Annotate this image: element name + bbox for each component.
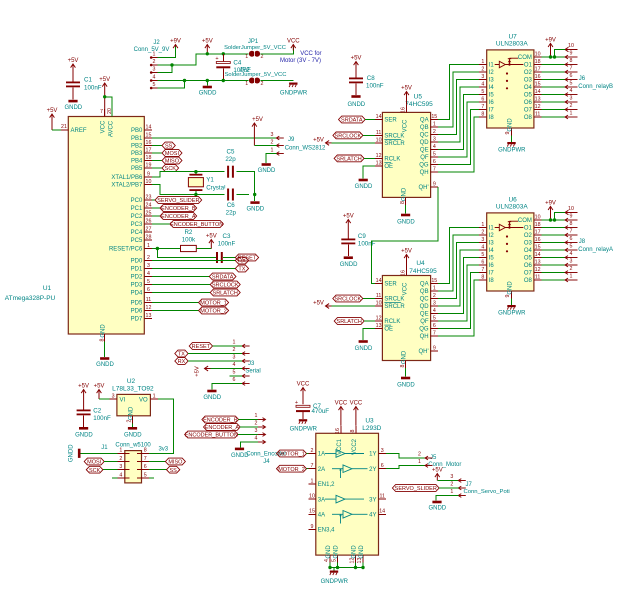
svg-text:7: 7 (311, 463, 314, 469)
svg-text:2: 2 (481, 229, 484, 235)
capacitor C2 (77, 410, 91, 416)
svg-text:PC3: PC3 (131, 222, 143, 228)
svg-text:SRCLOCK: SRCLOCK (212, 283, 239, 289)
wire COM rail (541, 219, 565, 221)
svg-text:+5V: +5V (313, 137, 324, 143)
svg-text:O7: O7 (524, 108, 533, 114)
net label ENCODER_BUTTON (J4) (185, 431, 238, 438)
svg-text:3: 3 (481, 237, 484, 243)
ground GNDD (C1) (72, 87, 74, 99)
J1 pin 3 (117, 469, 129, 471)
svg-text:9: 9 (570, 50, 573, 56)
svg-text:GNDD: GNDD (397, 382, 415, 388)
svg-text:100nF: 100nF (366, 83, 384, 90)
U7 pin 2 I2 (479, 71, 487, 73)
power +5V (C1) (71, 64, 76, 82)
svg-text:PC2: PC2 (131, 214, 143, 220)
svg-text:OE: OE (384, 327, 393, 333)
svg-text:SolderJumper_5V_VCC: SolderJumper_5V_VCC (224, 45, 286, 51)
svg-text:XTAL2/PB7: XTAL2/PB7 (111, 183, 143, 189)
wire U3 ground bus (330, 563, 363, 568)
capacitor C9 (341, 239, 355, 245)
svg-text:QH': QH' (418, 185, 428, 191)
svg-text:SRCLOCK: SRCLOCK (334, 297, 361, 303)
svg-text:GNDD: GNDD (397, 219, 415, 225)
svg-text:74HC595: 74HC595 (409, 268, 437, 275)
U5 pin 7 QH (431, 171, 439, 173)
IC U6 ULN2803A (487, 213, 534, 291)
junction (328, 566, 331, 569)
J6 pin 8 (565, 63, 578, 67)
wire SRCLR U4 (332, 305, 375, 307)
svg-text:8: 8 (481, 274, 484, 280)
wire MOTOR_2 U3 (306, 468, 308, 470)
svg-text:SRCLK: SRCLK (384, 134, 404, 140)
J8 pin 2 (565, 271, 578, 275)
svg-text:COM: COM (518, 218, 532, 224)
svg-text:I8: I8 (489, 115, 495, 121)
U4 pin 1 QB (431, 290, 439, 292)
wire XTAL2 net (152, 185, 249, 195)
junction (553, 218, 556, 221)
U3 pin 13 GND (362, 555, 364, 563)
wire PC1 ENCODER_B (152, 207, 160, 209)
U7 pin 14 O5 (534, 94, 542, 96)
wire MISO (152, 160, 162, 162)
U5 pin 14 SER (375, 119, 383, 121)
J8 pin 6 (565, 241, 578, 245)
power +5V (U1 VCC/AVCC) (102, 83, 107, 117)
svg-text:R2: R2 (184, 229, 192, 236)
wire SRLATCH (364, 157, 375, 159)
svg-text:6: 6 (570, 236, 573, 242)
svg-text:PD2: PD2 (131, 275, 143, 281)
power +5V (U4 SRCLR) (326, 304, 332, 309)
net label ENCODER_B (U1) (160, 205, 197, 212)
svg-text:22p: 22p (225, 156, 236, 163)
U1 pin 16 PB2 (144, 145, 152, 147)
svg-text:2: 2 (433, 293, 436, 299)
power +5V (C8) (354, 62, 359, 78)
svg-text:2: 2 (147, 255, 150, 261)
svg-text:3: 3 (271, 132, 274, 138)
U7 pin 18 O1 (534, 64, 542, 66)
svg-text:3: 3 (119, 464, 122, 470)
svg-text:QG: QG (419, 327, 429, 333)
svg-text:+9V: +9V (170, 39, 181, 45)
svg-text:7: 7 (100, 109, 103, 115)
wire J2 pins 2-3 (158, 65, 173, 73)
svg-text:5: 5 (481, 89, 484, 95)
ground GNDD (C8) (355, 83, 357, 95)
U4 pin 11 SRCLK (375, 298, 383, 300)
U3 pin 8 VCC2 (355, 426, 357, 434)
J8 pin 7 (565, 233, 578, 237)
ground GNDD (J1 pin1, rotated) (81, 452, 118, 454)
svg-text:1: 1 (233, 340, 236, 346)
svg-text:2: 2 (450, 482, 453, 488)
svg-text:15: 15 (535, 81, 541, 87)
J9 pin 3 (276, 136, 284, 140)
svg-text:10: 10 (535, 214, 541, 220)
svg-text:J1: J1 (101, 445, 108, 451)
J6 pin 2 (565, 108, 578, 112)
svg-text:6: 6 (144, 464, 147, 470)
svg-text:5: 5 (144, 472, 147, 478)
U5 pin 2 QC (431, 134, 439, 136)
svg-text:6: 6 (570, 73, 573, 79)
svg-text:U5: U5 (414, 94, 423, 101)
U6 pin 5 I5 (479, 257, 487, 259)
svg-text:QC: QC (420, 133, 430, 139)
svg-text:11: 11 (376, 293, 382, 299)
svg-text:RESET/PC6: RESET/PC6 (109, 247, 143, 253)
svg-text:J2: J2 (153, 40, 160, 46)
U2 pin 1 VO (150, 398, 158, 400)
svg-text:PD5: PD5 (131, 301, 143, 307)
svg-text:2: 2 (153, 59, 156, 65)
U4 pin 12 RCLK (375, 320, 383, 322)
svg-text:22p: 22p (226, 210, 237, 217)
J4 pin 2 (258, 425, 266, 429)
svg-text:15: 15 (309, 509, 315, 515)
svg-text:2A: 2A (318, 467, 325, 473)
junction (361, 566, 364, 569)
svg-text:11: 11 (376, 130, 382, 136)
U5 pin 10 SRCLR (375, 142, 383, 144)
net label MOSI (162, 150, 182, 157)
svg-text:O6: O6 (524, 100, 533, 106)
wire COM rail (541, 56, 565, 58)
svg-text:SRCLOCK: SRCLOCK (335, 134, 362, 140)
svg-text:+5V: +5V (401, 249, 412, 255)
svg-text:MOTOR_2: MOTOR_2 (200, 309, 227, 315)
U6 pin 17 O2 (534, 234, 542, 236)
U2 pin 3 VI (109, 398, 117, 400)
svg-text:9: 9 (570, 213, 573, 219)
svg-text:11: 11 (535, 111, 541, 117)
svg-text:1: 1 (450, 489, 453, 495)
wire J1 pin4 stub (112, 477, 117, 479)
wire +5V to J9 pin2 (254, 145, 276, 147)
net label ENCODER_A (J4) (204, 424, 241, 431)
svg-text:SERVO_SLIDER: SERVO_SLIDER (395, 486, 437, 492)
svg-text:1: 1 (245, 54, 248, 60)
ground GNDD (U4) (405, 368, 407, 377)
wire J3 pin4 (211, 368, 243, 370)
U5 pin 15 QA (431, 119, 439, 121)
svg-text:I8: I8 (489, 278, 495, 284)
U1 pin 15 PB1 (144, 137, 152, 139)
svg-text:GNDPWR: GNDPWR (290, 427, 318, 433)
svg-text:100nF: 100nF (84, 85, 102, 92)
svg-text:4: 4 (153, 75, 156, 81)
svg-text:2: 2 (271, 140, 274, 146)
svg-text:1: 1 (245, 81, 248, 87)
ground GNDD (C9) (347, 244, 349, 256)
svg-text:3: 3 (255, 428, 258, 434)
svg-text:GND: GND (129, 406, 135, 420)
junction (103, 95, 106, 98)
U6 pin 12 O7 (534, 272, 542, 274)
IC U2 L78L33_TO92 (117, 394, 150, 415)
J2 pin 4 (150, 80, 158, 82)
power VCC (C7) (301, 388, 306, 405)
svg-text:4: 4 (481, 81, 484, 87)
svg-text:12: 12 (146, 305, 152, 311)
svg-text:MOTOR_1: MOTOR_1 (278, 452, 305, 458)
svg-text:I4: I4 (489, 85, 495, 91)
U4 pin 10 SRCLR (375, 305, 383, 307)
svg-text:O7: O7 (524, 271, 533, 277)
svg-text:13: 13 (376, 160, 382, 166)
svg-text:QB: QB (420, 289, 429, 295)
U1 pin 17 PB3 (144, 152, 152, 154)
svg-text:ATmega328P-PU: ATmega328P-PU (5, 295, 56, 302)
svg-text:U3: U3 (365, 417, 374, 424)
capacitor C1 (66, 82, 80, 88)
svg-text:12: 12 (376, 315, 382, 321)
U1 pin 13 PD7 (144, 318, 152, 320)
net label TX (J3) (175, 350, 188, 357)
U3 pin 6 2Y (379, 468, 387, 470)
wire O4 to J8 (541, 249, 565, 251)
svg-text:16: 16 (146, 140, 152, 146)
svg-text:+5V: +5V (195, 366, 201, 377)
U1 pin 1 RESET/PC6 (144, 248, 152, 250)
J6 pin 7 (565, 70, 578, 74)
U5 pin 11 SRCLK (375, 134, 383, 136)
U4 pin 13 OE (375, 328, 383, 330)
ground GNDD (J2) (206, 81, 208, 86)
svg-text:ULN2803A: ULN2803A (496, 41, 528, 48)
wire PD to TX (152, 268, 236, 270)
svg-text:I4: I4 (489, 248, 495, 254)
svg-text:ENCODER_BUTTON: ENCODER_BUTTON (170, 222, 223, 228)
svg-text:PD6: PD6 (131, 309, 143, 315)
J9 pin 2 (276, 144, 284, 148)
svg-text:SRCLR: SRCLR (384, 141, 405, 147)
J3 pin 1 (242, 344, 250, 348)
svg-text:3: 3 (570, 95, 573, 101)
U6 pin 3 I3 (479, 242, 487, 244)
U1 pin 10 XTAL2/PB7 (144, 184, 152, 186)
net label MISO (162, 157, 182, 164)
U7 pin 5 I5 (479, 94, 487, 96)
svg-text:2: 2 (127, 419, 133, 422)
svg-text:SRLATCH: SRLATCH (336, 157, 361, 163)
IC U1 ATmega328P-PU (68, 117, 144, 335)
svg-text:ENCODER_B: ENCODER_B (161, 206, 196, 212)
J1 pin 5 (137, 477, 149, 479)
net label SERVO_SLIDER (J7) (392, 485, 439, 492)
svg-text:VI: VI (120, 398, 126, 404)
svg-text:C2: C2 (93, 408, 101, 415)
junction (354, 566, 357, 569)
power +5V (C2) (81, 390, 86, 410)
svg-text:MOSI: MOSI (165, 151, 180, 157)
wire AREF (52, 129, 61, 131)
svg-text:4: 4 (481, 244, 484, 250)
U6 pin 1 I1 (479, 227, 487, 229)
svg-text:VCC: VCC (101, 120, 107, 133)
svg-text:8: 8 (400, 201, 406, 204)
svg-text:GNDD: GNDD (428, 506, 446, 512)
svg-text:1: 1 (481, 59, 484, 65)
ground GNDD (J4) (235, 448, 244, 451)
svg-text:SRDATA: SRDATA (212, 275, 234, 281)
svg-text:GNDD: GNDD (69, 444, 75, 462)
svg-text:O3: O3 (524, 241, 533, 247)
svg-text:4: 4 (119, 472, 122, 478)
U5 pin 9 QH' (431, 186, 439, 188)
svg-text:14: 14 (146, 124, 152, 130)
U6 pin 9 GND (511, 291, 513, 299)
junction (222, 79, 225, 82)
U1 pin 19 PB5 (144, 167, 152, 169)
ground GNDD (J9) (266, 154, 276, 164)
net label SRDATA (209, 273, 236, 280)
J1 pin 7 (137, 461, 149, 463)
svg-text:MOSI: MOSI (87, 460, 102, 466)
power +5V (U5) (404, 92, 409, 105)
U3 pin 3 1Y (379, 453, 387, 455)
U3 pin 9 EN3,4 (308, 529, 316, 531)
J9 pin 1 (276, 152, 284, 156)
svg-text:GNDD: GNDD (124, 433, 142, 439)
svg-text:PB1: PB1 (131, 136, 143, 142)
net label RESET (235, 254, 258, 261)
svg-text:10: 10 (568, 43, 574, 49)
U3 pin 4 GND (329, 555, 331, 563)
J5 pin 1 (425, 464, 433, 468)
J2 pin 1 (150, 57, 158, 59)
net label ENCODER_A (U1) (160, 213, 197, 220)
svg-text:14: 14 (379, 509, 385, 515)
svg-text:1: 1 (147, 243, 150, 249)
U4 pin 3 QD (431, 305, 439, 307)
svg-text:18: 18 (535, 222, 541, 228)
U6 pin 10 COM (534, 219, 542, 221)
ground GNDD (U5) (405, 205, 407, 214)
svg-text:PD4: PD4 (131, 291, 143, 297)
svg-text:3: 3 (112, 393, 115, 399)
svg-text:SRCLK: SRCLK (384, 297, 404, 303)
J8 pin 5 (565, 248, 578, 252)
wire MOTOR_1 U3 (306, 453, 308, 455)
svg-text:+5V: +5V (94, 384, 105, 390)
net label RX (235, 257, 248, 264)
connector J1 Conn_w5100 (125, 451, 142, 483)
net label MOTOR_1 (199, 299, 229, 306)
power +5V (U2 VI) (97, 390, 102, 400)
svg-text:I5: I5 (489, 93, 495, 99)
wire J3 pin5 stub (230, 375, 243, 377)
svg-text:QC: QC (420, 297, 430, 303)
net label TX (235, 265, 248, 272)
svg-text:ENCODER_A: ENCODER_A (161, 214, 196, 220)
svg-text:4: 4 (147, 271, 150, 277)
svg-text:25: 25 (146, 210, 152, 216)
junction (194, 170, 197, 173)
wire PD to SRDATA (152, 276, 210, 278)
svg-text:Conn_5V_9V: Conn_5V_9V (134, 47, 170, 53)
U3 pin 5 GND (337, 555, 339, 563)
J2 pin 2 (150, 64, 158, 66)
net label SERVO_SLIDER (U1) (155, 197, 202, 204)
svg-text:QA: QA (420, 118, 429, 124)
net label SCK (J1) (86, 466, 103, 473)
J3 pin 2 (242, 352, 250, 356)
svg-text:9: 9 (147, 171, 150, 177)
svg-text:VCC: VCC (297, 382, 310, 388)
svg-text:Conn_relayB: Conn_relayB (578, 84, 613, 90)
ground GNDD (U2) (132, 423, 134, 427)
U3 internal drivers (325, 450, 364, 458)
svg-text:26: 26 (146, 218, 152, 224)
svg-text:ENCODER_A: ENCODER_A (205, 425, 240, 431)
wire O7 to J8 (541, 272, 565, 274)
wire ENCODER_B J4 (239, 419, 258, 421)
power +5V (J9) (252, 123, 257, 146)
ground GNDD (J7) (432, 501, 441, 504)
J6 pin 1 (565, 115, 578, 119)
svg-text:SS: SS (169, 468, 177, 474)
wire crystal right (249, 172, 255, 195)
svg-text:13: 13 (535, 259, 541, 265)
U7 pin 10 COM (534, 56, 542, 58)
J2 pin 5 (150, 87, 158, 89)
capacitor C4 100uF polarized (222, 54, 224, 62)
net label SRDATA (339, 116, 366, 123)
wire SERVO_SLIDER J7 (439, 487, 458, 489)
J3 pin 5 (242, 374, 250, 378)
svg-text:3: 3 (481, 74, 484, 80)
J5 pin 2 (425, 456, 433, 460)
svg-text:2Y: 2Y (369, 467, 376, 473)
svg-text:VCC: VCC (403, 119, 409, 132)
svg-text:O2: O2 (524, 70, 533, 76)
svg-text:ENCODER_B: ENCODER_B (203, 418, 238, 424)
svg-text:6: 6 (233, 377, 236, 383)
svg-text:1: 1 (271, 148, 274, 154)
svg-text:7: 7 (570, 228, 573, 234)
svg-text:O8: O8 (524, 278, 533, 284)
svg-text:PC0: PC0 (131, 198, 143, 204)
svg-text:17: 17 (535, 66, 541, 72)
svg-text:QA: QA (420, 282, 429, 288)
U3 pin 1 EN1,2 (308, 483, 316, 485)
J8 pin 10 (565, 210, 578, 214)
svg-text:PB3: PB3 (131, 151, 143, 157)
J3 pin 4 (242, 367, 250, 371)
svg-text:I6: I6 (489, 263, 495, 269)
svg-text:+5V: +5V (401, 86, 412, 92)
svg-text:10: 10 (535, 51, 541, 57)
J3 pin 3 (242, 359, 250, 363)
svg-text:AREF: AREF (71, 128, 87, 134)
power +5V (J3 pin4, rotated) (205, 366, 211, 371)
J8 pin 1 (565, 278, 578, 282)
wire O3 to J8 (541, 242, 565, 244)
svg-text:C3: C3 (223, 233, 231, 240)
power VCC (motor) (291, 45, 296, 51)
IC U4 74HC595 (382, 276, 430, 361)
wire PC0 SERVO_SLIDER (152, 199, 155, 201)
ground GNDD (C2) (83, 415, 85, 427)
junction (170, 63, 173, 66)
svg-text:U7: U7 (508, 34, 517, 41)
